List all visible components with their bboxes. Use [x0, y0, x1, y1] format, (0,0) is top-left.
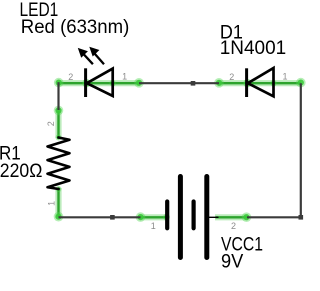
svg-text:220Ω: 220Ω	[0, 161, 42, 182]
LED emission arrow 2 head	[89, 47, 99, 57]
svg-text:2: 2	[46, 121, 56, 126]
wire: bendpoint square on top wire	[191, 81, 196, 86]
node: LED anode apex dot	[82, 79, 90, 87]
node: R1 pin2 end dot	[54, 106, 64, 116]
VCC1 tall bar (positive)	[178, 177, 183, 258]
wire: LED pin2 lead core	[59, 82, 140, 84]
svg-text:1: 1	[282, 72, 287, 82]
svg-text:1: 1	[46, 201, 56, 206]
node: R1 bottom terminal dot	[56, 186, 62, 192]
D1 triangle	[248, 68, 274, 96]
wire: left vertical dark segment corner to R1 pin2	[57, 82, 59, 110]
node: VCC1 pin2 end dot	[242, 212, 252, 222]
wire: R1 pin2 lead halo	[55, 109, 61, 138]
wire: bottom right dark segment corner to VCC1 pin2	[247, 216, 302, 218]
wire: VCC1 pin2 lead core	[216, 216, 248, 218]
wire: corner joint square bottom right	[299, 215, 304, 220]
wire: LED pin1 lead core	[219, 82, 301, 84]
wire: R1 pin1 lead halo	[55, 188, 61, 218]
wire: LED pin1 lead halo	[218, 80, 301, 86]
LED emission arrow 1 shaft	[83, 54, 93, 65]
LED LED1 symbol	[83, 53, 113, 97]
wire: right vertical dark segment	[300, 83, 302, 217]
wire: top dark segment LED1 to D1	[139, 82, 219, 84]
node: VCC1 left bar terminal dot	[163, 214, 170, 221]
node: corner top-right dot	[296, 78, 306, 88]
VCC1 tall bar 2 (positive)	[204, 177, 209, 258]
svg-text:9V: 9V	[221, 251, 244, 272]
wire: VCC1 pin1 lead halo	[140, 214, 168, 220]
svg-text:2: 2	[68, 72, 73, 82]
wire: bottom left dark segment BL corner to VCC1 pin1	[59, 216, 141, 218]
node: R1 top terminal dot	[56, 135, 62, 141]
node: VCC1 pin1 end dot	[136, 212, 146, 222]
svg-text:1N4001: 1N4001	[220, 38, 287, 59]
wire: VCC1 pin1 lead core	[141, 216, 167, 218]
node: D1 pin2 end dot	[214, 78, 224, 88]
node: D1 right-side dot	[270, 80, 276, 86]
wire: R1 pin1 lead core	[57, 189, 59, 217]
wire: bendpoint square on bottom wire	[110, 215, 115, 220]
svg-text:2: 2	[231, 221, 236, 231]
wire: R1 pin2 lead core	[57, 110, 59, 137]
node: LED pin1 free end dot	[134, 78, 144, 88]
svg-text:Red (633nm): Red (633nm)	[21, 17, 130, 38]
svg-text:1: 1	[122, 72, 127, 82]
svg-text:2: 2	[229, 72, 234, 82]
node: D1 apex dot	[243, 79, 251, 87]
wire: LED pin2 lead halo (node LED1.2)	[57, 80, 140, 86]
VCC1 short bar 2	[192, 202, 196, 229]
resistor R1 zigzag	[48, 138, 70, 190]
node: corner bottom-left dot	[54, 212, 64, 222]
node: corner top-left dot	[54, 78, 64, 88]
LED emission arrow 2 shaft	[94, 53, 104, 64]
wire: VCC1 pin2 lead halo	[215, 214, 248, 220]
VCC1 short bar 1 (negative)	[165, 202, 169, 229]
LED cathode bar	[84, 68, 87, 97]
D1 cathode bar	[245, 68, 248, 97]
diode D1 symbol	[247, 68, 274, 97]
LED emission arrow 1 head	[78, 48, 88, 58]
node: LED right-side dot	[109, 80, 115, 86]
LED triangle	[87, 69, 113, 96]
svg-text:1: 1	[151, 221, 156, 231]
VCC1 right thin lead	[209, 216, 218, 218]
battery VCC1 symbol	[167, 177, 218, 258]
